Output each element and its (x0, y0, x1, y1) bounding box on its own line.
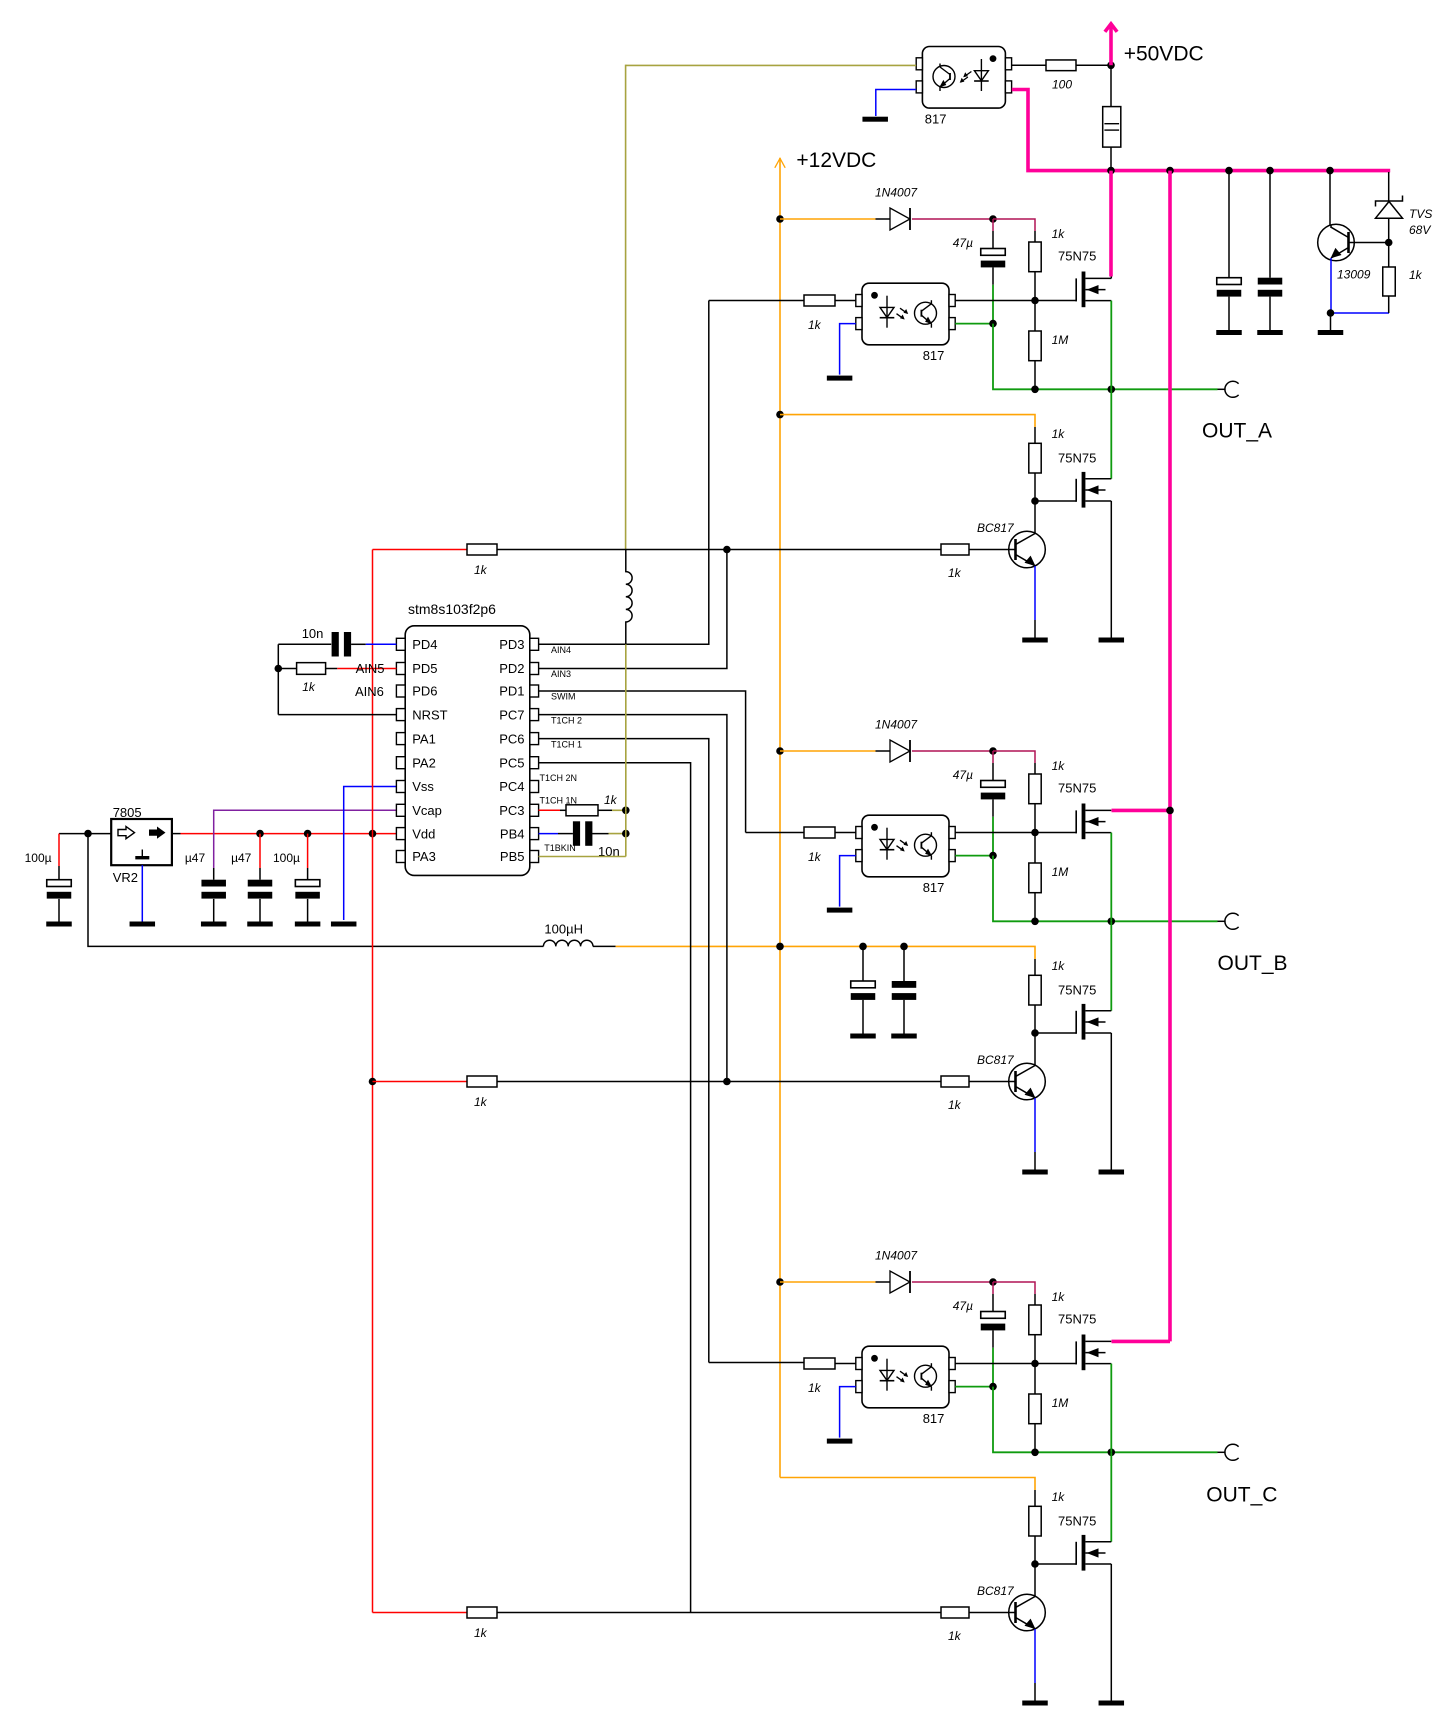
capacitor bus C2 (1258, 278, 1283, 285)
wire opto C emitter green (955, 1386, 993, 1388)
svg-text:BC817: BC817 (977, 521, 1015, 535)
svg-text:AIN4: AIN4 (551, 645, 571, 655)
wire channel B input from SWIM (746, 832, 804, 834)
capacitor 47u A (992, 219, 994, 231)
svg-text:µ47: µ47 (185, 851, 206, 865)
wire BC817 collector A (1034, 501, 1036, 534)
pin Vdd (left 9) (396, 828, 405, 840)
wire 1M bottom A (1034, 361, 1036, 390)
capacitor 47u C (992, 1282, 994, 1294)
svg-text:1k: 1k (1052, 1490, 1066, 1504)
wire 12V cap1 stem (862, 946, 864, 981)
capacitor bus C1 (polarized) (1217, 278, 1242, 285)
node reset rail (275, 665, 283, 673)
svg-text:PD1: PD1 (499, 684, 524, 699)
junction fuse/bus (1107, 167, 1115, 175)
svg-text:10n: 10n (302, 626, 324, 641)
svg-text:1k: 1k (948, 1629, 962, 1643)
wire BC817 collector B (1034, 1033, 1036, 1066)
wire R1k to PD5 red (326, 668, 338, 670)
wire opto B input resistor (835, 832, 856, 834)
wire BC817 collector C (1034, 1564, 1036, 1597)
wire green emitter down C (993, 1387, 1218, 1453)
wire diode B to boost node maroon (912, 750, 993, 752)
svg-text:TVS: TVS (1409, 207, 1432, 221)
wire olive PC3-PB4-PB5 segment (625, 810, 627, 856)
capacitor u47 b (248, 880, 273, 887)
wire green drain low C (1110, 1452, 1112, 1542)
wire green drain low A (1110, 389, 1112, 479)
wire olive U1 pin1 to feedback rail (626, 64, 917, 66)
svg-text:T1CH 2N: T1CH 2N (540, 773, 578, 783)
diode DB 1N4007 (890, 740, 910, 762)
inductor 100uH (543, 940, 593, 946)
wire opto B collector to gate node (955, 832, 1035, 834)
resistor 1k base C (941, 1607, 969, 1618)
wire channel C input from T1CH1 (709, 1362, 804, 1364)
node boost A (989, 215, 997, 223)
transistor BC817 C (1009, 1594, 1046, 1631)
capacitor 47u B (992, 751, 994, 763)
wire orange to diode C (780, 1281, 876, 1283)
node 12V rail junction (776, 943, 784, 951)
ground 12V C1 (850, 1034, 876, 1039)
MOSFET high-side 75N75 C (1075, 1341, 1077, 1364)
svg-text:1k: 1k (474, 1095, 488, 1109)
ground 13009 (1318, 330, 1344, 335)
ground opto C (827, 1439, 853, 1444)
svg-text:47µ: 47µ (953, 236, 973, 250)
ground MOSFET low A (1099, 638, 1125, 643)
ground 12V C2 (891, 1034, 917, 1039)
wire gate node to MOSFET A (1035, 300, 1076, 302)
node OUT C half-bridge (1108, 1449, 1116, 1457)
ground 100u (5V) (295, 922, 321, 927)
svg-text:817: 817 (925, 112, 947, 127)
svg-text:47µ: 47µ (953, 768, 973, 782)
node OUT B 1M (1031, 918, 1039, 926)
svg-text:OUT_C: OUT_C (1206, 1484, 1277, 1507)
resistor 1k opto-in C (804, 1358, 835, 1369)
svg-text:SWIM: SWIM (551, 692, 576, 702)
node 12V input (84, 830, 92, 838)
wire PC3 stub red (539, 809, 561, 811)
wire green source high C (1110, 1364, 1112, 1453)
ground u47 b (247, 922, 273, 927)
svg-text:AIN5: AIN5 (356, 661, 385, 676)
svg-text:75N75: 75N75 (1058, 450, 1096, 465)
resistor 1k gate-high B (1029, 774, 1041, 804)
node red riser channel B (369, 1078, 377, 1086)
pin PC6 (right 5) (530, 733, 539, 745)
node gate low C (1031, 1560, 1039, 1568)
resistor 1k gate-low C (1029, 1506, 1041, 1536)
rail reset network (277, 644, 279, 714)
wire 1k to gate node C (1034, 1335, 1036, 1364)
wire node to R1k (1388, 243, 1390, 268)
svg-text:PD2: PD2 (499, 661, 524, 676)
svg-text:PA1: PA1 (412, 731, 436, 746)
wire orange branch low B (904, 946, 1035, 959)
node 12V cap1 (859, 943, 867, 951)
wire gate node to MOSFET low B (1035, 1032, 1076, 1034)
capacitor 10n (PB4) (573, 821, 580, 846)
ground opto A (827, 376, 853, 381)
node opto emitter B (989, 852, 997, 860)
wire base wire A (497, 549, 941, 551)
svg-text:1M: 1M (1052, 1396, 1069, 1410)
resistor 1k base B (941, 1076, 969, 1087)
wire 1k to gate node low B (1034, 1005, 1036, 1033)
pin PD6 (left 3) (396, 685, 405, 697)
wire BC817 emitter blue B (1034, 1098, 1036, 1152)
wire base wire C (497, 1612, 941, 1614)
pin PD4 (left 1) (396, 638, 405, 650)
wire 47u bottom green C (992, 1330, 994, 1347)
svg-text:75N75: 75N75 (1058, 982, 1096, 997)
voltage regulator VR2 7805 (111, 819, 172, 865)
pin NRST (left 4) (396, 709, 405, 721)
resistor 1k base-feed C (467, 1607, 497, 1618)
wire 10n PB4 to olive node (592, 833, 608, 835)
ground BC817 C (1022, 1701, 1048, 1706)
svg-text:+12VDC: +12VDC (796, 149, 876, 172)
svg-text:1k: 1k (948, 566, 962, 580)
svg-text:AIN6: AIN6 (355, 684, 384, 699)
svg-text:PA3: PA3 (412, 849, 436, 864)
wire green emitter down A (993, 324, 1218, 390)
wire boost node to gate 1k C (993, 1282, 1035, 1294)
diode DA 1N4007 (890, 208, 910, 230)
node boost C (989, 1278, 997, 1286)
wire gate node to MOSFET B (1035, 832, 1076, 834)
pin PC3 (right 8) (530, 804, 539, 816)
wire boost node to gate 1k A (993, 219, 1035, 231)
wire 1M bottom C (1034, 1424, 1036, 1453)
svg-text:75N75: 75N75 (1058, 780, 1096, 795)
node TVS/base/R1k (1385, 239, 1393, 247)
IC U2 stm8s103f2p6 body (405, 626, 530, 876)
node 5V red riser (369, 830, 377, 838)
wire 13009 emitter blue (1331, 258, 1389, 313)
wire R-100 to +50VDC node (1076, 64, 1111, 66)
wire 47u bottom green B (992, 799, 994, 816)
svg-text:13009: 13009 (1337, 268, 1371, 282)
svg-text:Vss: Vss (412, 779, 434, 794)
wire AIN4 net (PD3 to channel A input) (539, 301, 709, 645)
svg-text:100µ: 100µ (25, 851, 52, 865)
svg-text:1M: 1M (1052, 333, 1069, 347)
wire green source high A (1110, 301, 1112, 390)
wire TVS to base node (1388, 218, 1390, 242)
wire olive AIN4-to-PC3 segment (625, 644, 627, 810)
node 5V cap2 (256, 830, 264, 838)
wire 13009 collector (1329, 171, 1331, 225)
wire T1CH2 net (PC7 down to base wire B) (539, 715, 727, 1082)
ground regulator (130, 922, 156, 927)
svg-text:PD6: PD6 (412, 684, 437, 699)
resistor 1k opto-in B (804, 827, 835, 838)
wire magenta 50V drop rail (1168, 171, 1172, 1342)
wire red base feed B (373, 1081, 468, 1083)
wire 1M pulldown top C (1034, 1364, 1036, 1395)
connector OUT_A (1218, 388, 1226, 390)
resistor 1k (13009 bias) (1383, 267, 1396, 296)
power arrow +50VDC (1109, 26, 1113, 65)
resistor 1k (PC3) (566, 805, 598, 816)
svg-text:PC4: PC4 (499, 779, 524, 794)
wire opto B cathode blue to ground (840, 856, 856, 907)
wire opto A emitter green (955, 323, 993, 325)
wire opto C cathode blue to ground (840, 1387, 856, 1438)
capacitor 10n (NRST) (332, 632, 339, 657)
wire 1k to gate node low A (1034, 473, 1036, 501)
wire fuse to 50V bus (1110, 147, 1112, 171)
pin PB4 (right 9) (530, 828, 539, 840)
node boost B (989, 747, 997, 755)
opto-coupler U1 817 (50V sense) (922, 47, 1005, 109)
ground bus C1 (1216, 330, 1242, 335)
svg-text:1k: 1k (1052, 1290, 1066, 1304)
wire T1CH1 net (PC6 down to channel C input) (539, 739, 709, 1363)
wire 1M pulldown top B (1034, 833, 1036, 864)
pin PC7 (right 4) (530, 709, 539, 721)
wire 1k to gate node B (1034, 804, 1036, 833)
pin PC4 (right 7) (530, 781, 539, 793)
wire orange branch low A (776, 411, 784, 419)
wire 12V feed to inductor (88, 834, 543, 947)
wire cap2 to ground (1269, 297, 1271, 330)
capacitor 100u (5V) (295, 880, 320, 887)
wire u47b stem (259, 834, 261, 868)
resistor 1k opto-in A (804, 295, 835, 306)
svg-text:T1CH 2: T1CH 2 (551, 715, 582, 725)
wire base wire B (497, 1081, 941, 1083)
wire SWIM net (PD1 down to channel B input) (539, 691, 746, 833)
wire Vss blue to ground (344, 787, 397, 921)
wire magenta drain B (1112, 809, 1171, 813)
resistor 1M C (1029, 1394, 1041, 1424)
wire gate node to MOSFET low A (1035, 500, 1076, 502)
junction bus cap1 (1225, 167, 1233, 175)
wire Vcap purple (214, 810, 397, 868)
node opto emitter A (989, 320, 997, 328)
inductor (feedback choke) (626, 550, 632, 645)
resistor 1k gate-low B (1029, 975, 1041, 1005)
wire input cap to ground (58, 899, 60, 922)
svg-text:OUT_B: OUT_B (1218, 952, 1288, 975)
wire 1k to gate node A (1034, 272, 1036, 301)
node PB4/feedback (622, 830, 630, 838)
wire magenta drain C (1112, 1340, 1171, 1344)
wire olive feedback rail vertical (625, 65, 627, 550)
wire MOSFET low source to ground A (1110, 501, 1112, 638)
wire 13009 base (1349, 242, 1390, 244)
svg-text:1k: 1k (302, 680, 316, 694)
ground opto B (827, 908, 853, 913)
capacitor 12V C2 (892, 981, 917, 988)
capacitor u47 a (201, 880, 226, 887)
transistor BC817 B (1009, 1063, 1046, 1100)
wire BC817 emitter blue A (1034, 566, 1036, 620)
wire opto C input resistor (835, 1363, 856, 1365)
svg-text:stm8s103f2p6: stm8s103f2p6 (408, 601, 496, 617)
pin PC5 (right 6) (530, 757, 539, 769)
capacitor 12V C1 polarized (851, 981, 876, 988)
svg-text:75N75: 75N75 (1058, 1311, 1096, 1326)
power arrow +12VDC (779, 158, 781, 946)
node gate low B (1031, 1029, 1039, 1037)
svg-text:75N75: 75N75 (1058, 1513, 1096, 1528)
svg-text:7805: 7805 (113, 805, 142, 820)
pin PD1 (right 3) (530, 685, 539, 697)
wire inductor to 12V net (593, 945, 616, 947)
wire 12V input to regulator (59, 833, 111, 835)
resistor 1k base A (941, 544, 969, 555)
svg-text:PC7: PC7 (499, 707, 524, 722)
svg-text:75N75: 75N75 (1058, 248, 1096, 263)
svg-text:AIN3: AIN3 (551, 669, 571, 679)
pin PA3 (left 10) (396, 851, 405, 863)
node 12V tap diode B (776, 747, 784, 755)
wire green source high B (1110, 833, 1112, 922)
wire 100u-3 stem (307, 834, 309, 868)
svg-text:T1CH 1N: T1CH 1N (540, 796, 578, 806)
wire bus cap1 stem (1228, 171, 1230, 278)
wire orange branch low C (780, 1478, 1035, 1491)
pin PB5 (right 10) (530, 851, 539, 863)
node +50VDC (1107, 62, 1115, 70)
pin PD5 (left 2) (396, 663, 405, 675)
svg-text:PB5: PB5 (500, 849, 525, 864)
node OUT B half-bridge (1108, 918, 1116, 926)
wire 1k to gate node low C (1034, 1536, 1036, 1564)
svg-text:1k: 1k (808, 850, 822, 864)
resistor 1k (AIN5) (297, 663, 326, 675)
ground MOSFET low B (1099, 1170, 1125, 1175)
wire 1M bottom B (1034, 893, 1036, 922)
opto-coupler 817 A (862, 283, 949, 345)
node gate high B (1031, 829, 1039, 837)
wire boost node to gate 1k B (993, 751, 1035, 763)
pin Vss (left 7) (396, 781, 405, 793)
MOSFET low-side 75N75 A (1075, 479, 1077, 502)
svg-text:1k: 1k (1409, 268, 1423, 282)
node gate low A (1031, 497, 1039, 505)
svg-text:T1CH 1: T1CH 1 (551, 739, 582, 749)
node PC3/feedback (622, 807, 630, 815)
wire 5V output red (172, 833, 181, 835)
svg-text:1k: 1k (948, 1098, 962, 1112)
wire orange 12V rail lower (779, 946, 781, 1477)
capacitor 100u input (47, 880, 72, 887)
resistor 1k gate-high C (1029, 1305, 1041, 1335)
opto-coupler 817 C (862, 1346, 949, 1408)
wire 12V cap2 ground (903, 1000, 905, 1034)
wire gate node to MOSFET low C (1035, 1563, 1076, 1565)
MOSFET low-side 75N75 C (1075, 1542, 1077, 1565)
node 12V cap2 (900, 943, 908, 951)
node 13009 emitter/ground (1327, 309, 1335, 317)
ground U1 emitter (862, 117, 888, 122)
fuse F1 (1103, 107, 1121, 148)
wire cap1 to ground (1228, 297, 1230, 330)
wire regulator ground blue (141, 865, 143, 921)
svg-text:1k: 1k (1052, 227, 1066, 241)
svg-text:1N4007: 1N4007 (875, 718, 918, 732)
wire olive PB5 (539, 856, 626, 858)
svg-text:PD4: PD4 (412, 637, 437, 652)
svg-text:BC817: BC817 (977, 1053, 1015, 1067)
pin PA2 (left 6) (396, 757, 405, 769)
transistor BC817 A (1009, 531, 1046, 568)
wire 10n to PD4 blue (351, 643, 366, 645)
svg-text:100µ: 100µ (273, 851, 300, 865)
svg-text:817: 817 (923, 348, 945, 363)
wire 1M pulldown top A (1034, 301, 1036, 332)
wire diode C to boost node maroon (912, 1281, 993, 1283)
svg-text:1k: 1k (474, 1626, 488, 1640)
wire u47b to ground (259, 899, 261, 922)
wire magenta drain A (1109, 171, 1113, 277)
pin PD3 (right 1) (530, 638, 539, 650)
svg-text:1k: 1k (1052, 759, 1066, 773)
wire orange to diode A (780, 218, 876, 220)
wire AIN3 net (PD2 up to base wire A) (539, 550, 727, 669)
resistor 1M A (1029, 331, 1041, 361)
wire orange to diode B (780, 750, 876, 752)
wire 100u-3 to ground (307, 899, 309, 922)
wire gate node to MOSFET C (1035, 1363, 1076, 1365)
wire magenta U1 pin4 to 50V bus (1012, 90, 1390, 171)
svg-text:Vcap: Vcap (412, 803, 442, 818)
node 12V tap diode C (776, 1278, 784, 1286)
wire opto A input resistor (835, 300, 856, 302)
svg-text:817: 817 (923, 880, 945, 895)
resistor 1k gate-low A (1029, 443, 1041, 473)
transistor Q1 13009 (1318, 224, 1355, 261)
svg-text:PB4: PB4 (500, 826, 525, 841)
pin Vcap (left 8) (396, 804, 405, 816)
wire red base feed A (373, 549, 468, 551)
svg-text:1N4007: 1N4007 (875, 186, 918, 200)
wire bus to TVS (1388, 172, 1390, 201)
resistor 1M B (1029, 863, 1041, 893)
resistor 1k base-feed B (467, 1076, 497, 1087)
MOSFET low-side 75N75 B (1075, 1011, 1077, 1034)
wire node to fuse (1110, 65, 1112, 106)
wire red base feed C (373, 1612, 468, 1614)
wire PD4 to 10n cap (278, 643, 331, 645)
wire opto A cathode blue to ground (840, 324, 856, 375)
connector OUT_B (1218, 920, 1226, 922)
wire PB4 stub blue (539, 833, 559, 835)
wire R1k PC3 to olive node (598, 809, 612, 811)
wire BC817 emitter blue C (1034, 1629, 1036, 1683)
wire channel A input from AIN4 (709, 300, 804, 302)
wire U1 collector to R-100 (1012, 64, 1046, 66)
svg-text:1M: 1M (1052, 865, 1069, 879)
svg-text:PD5: PD5 (412, 661, 437, 676)
MOSFET high-side 75N75 A (1075, 278, 1077, 301)
wire rail to R1k AIN5 (278, 668, 296, 670)
ground u47 a (201, 922, 227, 927)
svg-text:+50VDC: +50VDC (1124, 42, 1204, 65)
svg-text:PA2: PA2 (412, 755, 436, 770)
svg-text:1k: 1k (1052, 959, 1066, 973)
wire 47u bottom green A (992, 267, 994, 284)
node 12V tap diode A (776, 215, 784, 223)
